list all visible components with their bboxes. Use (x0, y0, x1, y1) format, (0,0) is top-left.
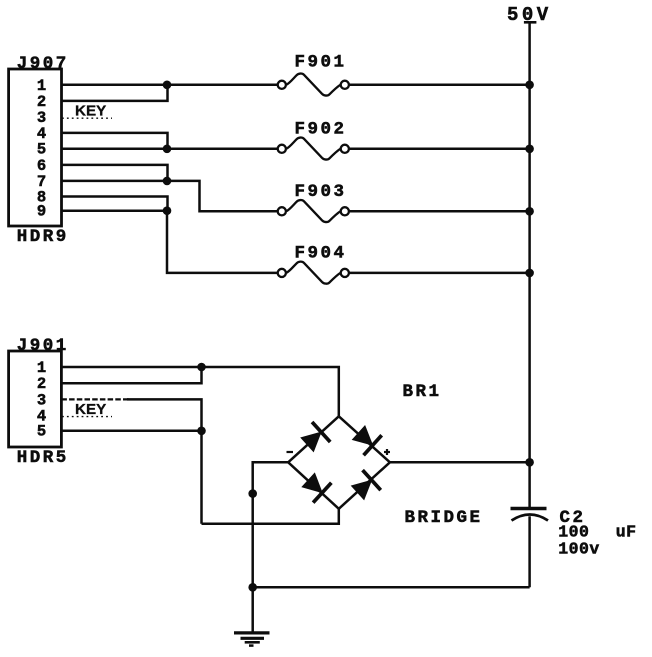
wire F901 to 50V rail (349, 84, 529, 87)
fuse F904 (278, 262, 349, 284)
wire J907 pin8 (62, 197, 168, 211)
wire J907 pin7 to F903 (62, 181, 278, 211)
wire J901 pin2 (61, 367, 201, 383)
svg-text:J907: J907 (17, 54, 69, 74)
svg-text:BRIDGE: BRIDGE (405, 508, 483, 528)
junction F904 rail (525, 269, 534, 278)
wire J901 pin3 faded segment (61, 398, 129, 400)
junction F902 rail (525, 145, 534, 154)
wire J901 pin3 down (127, 399, 202, 523)
junction J901 pins 1-2 (197, 363, 206, 372)
wire C2 bottom (528, 516, 531, 587)
bridge BR1 diamond arms (288, 416, 390, 509)
minus mark at bridge left corner (287, 451, 294, 453)
wire J907 pin4 (62, 133, 168, 149)
wire bridge left corner (253, 462, 289, 633)
wire J907 pin6 (62, 165, 168, 181)
fuse F901 (278, 74, 349, 96)
wire F903 to 50V rail (349, 210, 529, 213)
plus mark at bridge right corner (384, 449, 390, 455)
junction J907 pins 4-5 (163, 145, 172, 154)
wire J901 pin5 (61, 430, 201, 433)
svg-text:F901: F901 (295, 52, 347, 72)
svg-text:HDR9: HDR9 (17, 227, 69, 247)
svg-text:KEY: KEY (75, 103, 106, 120)
wire pins 8-9 junction down to F904 (167, 211, 278, 273)
ground symbol (234, 633, 270, 646)
wire J907 pin9 (62, 209, 168, 212)
key dotted line J901 pin4 (62, 416, 112, 418)
svg-text:5: 5 (37, 423, 46, 441)
wire J907 pin5 to F902 (62, 148, 278, 151)
junction J907 pins 6-7 (163, 177, 172, 186)
svg-text:F903: F903 (295, 182, 347, 202)
junction J907 pins 1-2 (163, 81, 172, 90)
svg-text:F902: F902 (295, 120, 347, 140)
key dotted line J907 pin3 (62, 117, 112, 119)
junction F903 rail (525, 207, 534, 216)
junction J901 pins 3-5 (197, 427, 206, 436)
capacitor C2 curved plate (512, 515, 549, 521)
svg-text:J901: J901 (17, 336, 69, 356)
wire J901 pin1 to bridge top (61, 367, 338, 416)
connector J901 box (9, 351, 62, 447)
svg-text:KEY: KEY (75, 401, 106, 418)
junction dot on left vertical (248, 489, 257, 498)
junction bridge to rail (525, 458, 534, 467)
svg-text:5: 5 (37, 141, 46, 159)
svg-text:uF: uF (616, 522, 637, 541)
diode D1 top-left arm (298, 421, 331, 454)
capacitor C2 top plate (511, 507, 547, 511)
fuse F903 (278, 200, 349, 222)
svg-text:9: 9 (37, 203, 46, 221)
diode D2 top-right arm (349, 422, 382, 455)
wire bottom return C2 to ground vertical (253, 586, 530, 589)
50V rail top tick (524, 21, 537, 24)
connector J907 box (9, 69, 62, 226)
diode D4 bottom-right arm (348, 470, 381, 503)
wire J907 pin2 (62, 85, 168, 101)
svg-text:BR1: BR1 (403, 382, 442, 402)
junction ground vertical and return wire (248, 583, 257, 592)
fuse F902 (278, 138, 349, 160)
diode D3 bottom-left arm (299, 470, 332, 503)
wire J907 pin1 to F901 (62, 84, 278, 87)
junction J907 pins 8-9 (163, 206, 172, 215)
svg-text:F904: F904 (295, 244, 347, 264)
svg-text:100v: 100v (558, 540, 599, 559)
wire F904 to 50V rail (349, 272, 529, 275)
svg-text:1: 1 (37, 359, 46, 377)
wire F902 to 50V rail (349, 148, 529, 151)
wire bridge right corner to rail (390, 461, 530, 464)
junction F901 rail (525, 81, 534, 90)
wire 50V rail vertical (528, 22, 531, 508)
wire bottom AC to bridge bottom (202, 509, 339, 524)
svg-text:HDR5: HDR5 (17, 448, 69, 468)
